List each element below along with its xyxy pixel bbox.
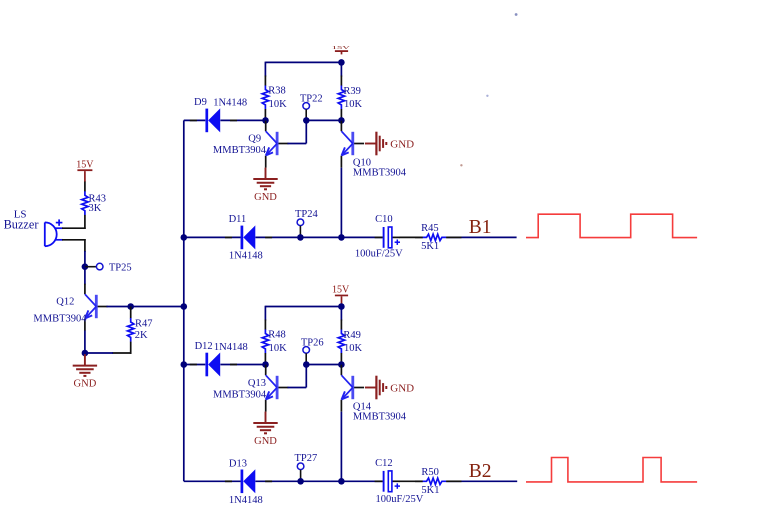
wire C12 to R50	[400, 480, 423, 482]
resistor R47	[128, 318, 153, 342]
wire output row 1 (left part)	[184, 236, 383, 238]
wire R49 bottom lead	[340, 353, 342, 365]
svg-text:MMBT3904: MMBT3904	[353, 167, 407, 178]
node TP27 junction	[297, 478, 304, 485]
wire Q12 emitter down	[84, 331, 86, 354]
wire R39 top lead	[340, 62, 342, 85]
diode D13	[225, 458, 272, 506]
resistor R48	[262, 330, 287, 355]
node bus/Q12 base row	[181, 303, 188, 310]
wire R43 to buzzer corner	[84, 215, 86, 229]
resistor R38	[262, 86, 287, 111]
wire R39 bottom lead	[340, 109, 342, 121]
power 15V (top of circuit 2)	[332, 285, 350, 306]
ground (Q14 base, sideways)	[365, 376, 414, 400]
transistor Q10	[341, 121, 406, 179]
power 15V (above R43)	[76, 160, 94, 182]
svg-text:C12: C12	[375, 458, 393, 469]
resistor R49	[338, 330, 362, 355]
svg-text:1N4148: 1N4148	[213, 98, 247, 109]
svg-text:R47: R47	[135, 318, 153, 329]
svg-text:R39: R39	[343, 86, 361, 97]
wire R50 to output B2	[415, 480, 517, 482]
svg-text:10K: 10K	[269, 343, 288, 354]
svg-text:R38: R38	[268, 86, 286, 97]
wire buzzer bottom lead	[55, 239, 85, 241]
svg-text:R49: R49	[343, 330, 361, 341]
svg-text:MMBT3904: MMBT3904	[213, 390, 267, 401]
svg-text:Q9: Q9	[248, 133, 261, 144]
wire down to TP25	[84, 239, 86, 268]
testpoint TP26	[301, 337, 324, 364]
svg-text:MMBT3904: MMBT3904	[213, 145, 267, 156]
transistor Q12	[33, 284, 107, 331]
testpoint TP27	[295, 453, 318, 481]
buzzer LS	[4, 209, 63, 247]
svg-text:D13: D13	[229, 458, 247, 469]
node TP25 junction	[82, 263, 89, 270]
node bus/D11 row	[181, 234, 188, 241]
svg-text:10K: 10K	[269, 99, 288, 110]
node top rail / R39	[338, 59, 345, 66]
wire Q10 emitter down to output row	[340, 168, 342, 238]
svg-text:3K: 3K	[89, 203, 102, 214]
svg-text:100uF/25V: 100uF/25V	[376, 494, 424, 505]
transistor Q13	[213, 365, 288, 412]
node R49 bottom junction	[338, 361, 345, 368]
wire top rail circuit 2	[265, 306, 341, 308]
resistor R50	[421, 467, 446, 496]
svg-text:5K1: 5K1	[421, 241, 439, 252]
svg-text:Q13: Q13	[248, 378, 266, 389]
wire net B (TP22 to R39 bottom)	[306, 119, 341, 121]
wire 15V to R43	[84, 182, 86, 192]
node Q10 emitter / output row	[338, 234, 345, 241]
wire net A (bus to R38 bottom)	[184, 119, 266, 121]
node R47 top junction	[127, 303, 134, 310]
svg-text:MMBT3904: MMBT3904	[33, 314, 87, 325]
wire R48 top lead	[264, 306, 266, 330]
wire left bus	[183, 120, 185, 481]
wire Q14 emitter down to output row	[340, 412, 342, 482]
svg-text:15V: 15V	[332, 45, 350, 50]
wire C10 to R45	[400, 236, 423, 238]
diode D11	[225, 214, 272, 261]
node Q14 emitter / output row	[338, 478, 345, 485]
svg-text:15V: 15V	[332, 285, 350, 296]
resistor R39	[338, 86, 362, 111]
node R39 bottom junction	[338, 117, 345, 124]
node bus/D12 row	[181, 361, 188, 368]
svg-text:1N4148: 1N4148	[229, 495, 263, 506]
wire net A2 (bus to R48 bottom)	[184, 364, 266, 366]
resistor R45	[421, 223, 446, 252]
node top rail / R49	[338, 303, 345, 310]
testpoint TP25	[85, 262, 132, 273]
svg-text:TP22: TP22	[300, 93, 323, 104]
svg-text:Q12: Q12	[56, 297, 74, 308]
ground (under Q9)	[253, 168, 277, 203]
svg-text:10K: 10K	[344, 343, 363, 354]
svg-text:D11: D11	[229, 214, 247, 225]
wire R49 top lead	[340, 307, 342, 330]
testpoint TP24	[295, 209, 319, 237]
svg-text:2K: 2K	[135, 330, 148, 341]
svg-text:MMBT3904: MMBT3904	[353, 411, 407, 422]
diode D12	[190, 341, 248, 376]
wire Q12 base to bus	[107, 306, 185, 308]
wire net B2 (TP26 to R49 bottom)	[306, 364, 341, 366]
node Q12 emitter junction	[82, 350, 89, 357]
node TP26 junction	[303, 361, 310, 368]
node TP22 junction	[303, 117, 310, 124]
wire R48 bottom lead	[264, 353, 266, 365]
svg-text:Buzzer: Buzzer	[4, 218, 39, 232]
transistor Q9	[213, 121, 289, 168]
capacitor C10	[355, 214, 403, 259]
ground (Q10 base, sideways)	[365, 132, 414, 156]
ground (under Q13)	[253, 412, 277, 447]
svg-text:10K: 10K	[344, 99, 363, 110]
power 15V squished (top of circuit 1)	[332, 45, 350, 54]
svg-text:5K1: 5K1	[421, 485, 439, 496]
wire R38 bottom lead	[264, 109, 266, 121]
svg-text:1N4148: 1N4148	[214, 342, 248, 353]
wire R47 bottom to emitter node	[85, 342, 132, 354]
ground (under Q12)	[73, 354, 97, 389]
wire R38 top lead	[264, 62, 266, 86]
svg-text:15V: 15V	[76, 160, 94, 171]
wire Q9 base to net B	[288, 120, 307, 143]
wire R47 top lead	[130, 307, 132, 319]
testpoint TP22	[300, 93, 323, 120]
svg-text:R45: R45	[421, 223, 439, 234]
capacitor C12	[375, 458, 424, 505]
waveform B1	[526, 214, 697, 237]
wire Q13 base to net B2	[288, 365, 307, 388]
svg-text:TP27: TP27	[295, 453, 318, 464]
svg-text:R48: R48	[268, 330, 286, 341]
wire top rail circuit 1	[265, 61, 341, 63]
svg-text:100uF/25V: 100uF/25V	[355, 248, 403, 259]
wire R45 to output B1	[415, 236, 517, 238]
svg-text:TP25: TP25	[109, 262, 132, 273]
svg-text:R50: R50	[421, 467, 439, 478]
waveform B2	[526, 458, 697, 482]
transistor Q14	[341, 365, 406, 423]
node TP24 junction	[297, 234, 304, 241]
diode D9	[190, 97, 247, 132]
wire buzzer top lead	[55, 227, 86, 229]
svg-text:1N4148: 1N4148	[229, 250, 263, 261]
wire TP25 to Q12 collector	[84, 267, 86, 285]
resistor R43	[82, 191, 106, 215]
svg-text:TP24: TP24	[295, 209, 319, 220]
wire output row 2 (left part)	[184, 480, 383, 482]
node R48/D12/Q13 collector	[262, 361, 269, 368]
svg-text:B1: B1	[469, 217, 492, 238]
svg-text:C10: C10	[375, 214, 393, 225]
svg-text:D9: D9	[194, 97, 207, 108]
svg-text:D12: D12	[195, 341, 213, 352]
svg-text:B2: B2	[469, 461, 492, 482]
node R38/D9/Q9 collector	[262, 117, 269, 124]
